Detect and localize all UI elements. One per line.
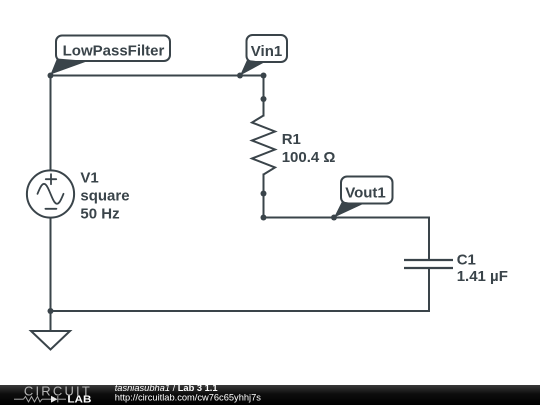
svg-text:tasniasubha1 / Lab 3 1.1: tasniasubha1 / Lab 3 1.1 xyxy=(115,383,218,393)
svg-text:50 Hz: 50 Hz xyxy=(80,205,119,222)
svg-text:LAB: LAB xyxy=(67,395,91,405)
svg-text:Vin1: Vin1 xyxy=(251,43,282,60)
svg-text:square: square xyxy=(80,187,129,204)
svg-text:100.4 Ω: 100.4 Ω xyxy=(282,149,336,166)
svg-text:1.41 µF: 1.41 µF xyxy=(457,268,508,285)
svg-text:LowPassFilter: LowPassFilter xyxy=(63,43,165,60)
svg-text:Vout1: Vout1 xyxy=(345,185,386,202)
svg-text:http://circuitlab.com/cw76c65y: http://circuitlab.com/cw76c65yhhj7s xyxy=(115,393,262,403)
svg-text:V1: V1 xyxy=(80,169,98,186)
svg-text:R1: R1 xyxy=(282,131,301,148)
svg-text:C1: C1 xyxy=(457,251,476,268)
